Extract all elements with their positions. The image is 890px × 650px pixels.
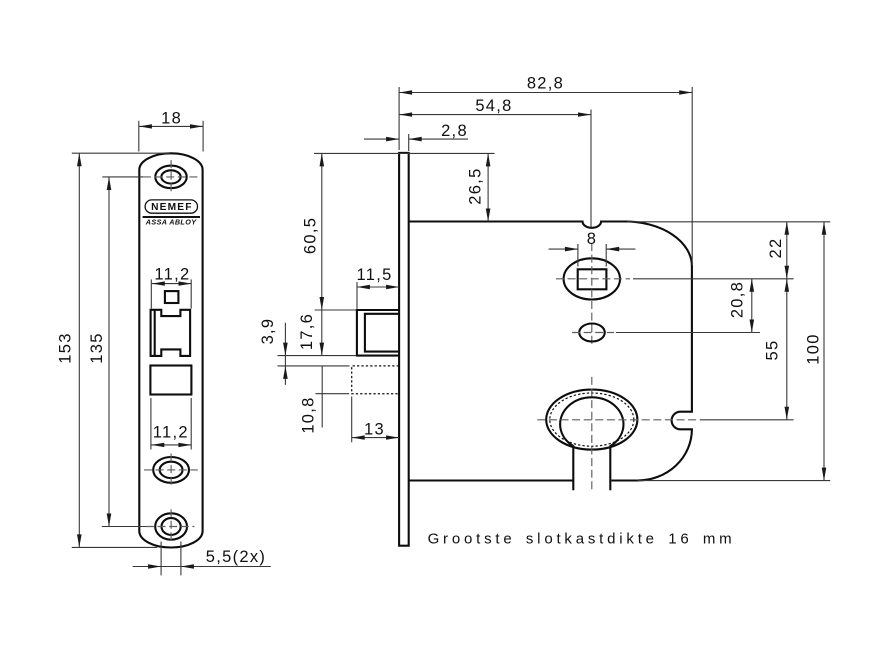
svg-text:60,5: 60,5 xyxy=(301,217,319,254)
dimension 26,5 xyxy=(314,153,495,221)
latch bolt bevel line xyxy=(154,310,156,356)
top screw hole centerline vertical xyxy=(170,160,172,194)
top screw hole outer xyxy=(155,166,186,189)
svg-text:NEMEF: NEMEF xyxy=(151,202,193,213)
faceplate bar side view xyxy=(399,153,409,546)
dimension 20,8 xyxy=(729,279,755,333)
keyhole centerline vertical xyxy=(591,377,593,492)
dimension 135 xyxy=(88,177,146,527)
svg-text:Grootste slotkastdikte 16 mm: Grootste slotkastdikte 16 mm xyxy=(428,531,736,548)
svg-text:153: 153 xyxy=(57,332,75,363)
bottom slot centerline horizontal xyxy=(146,526,194,528)
follower hole ellipse xyxy=(564,258,620,299)
top screw hole centerline horizontal xyxy=(143,176,199,178)
middle slot centerline vertical xyxy=(170,454,172,487)
svg-text:82,8: 82,8 xyxy=(527,74,564,92)
dimension 18 xyxy=(139,110,203,152)
spindle square hole xyxy=(165,291,179,303)
dimension 22 xyxy=(627,222,830,279)
latch bolt side outer xyxy=(357,310,399,356)
svg-text:17,6: 17,6 xyxy=(298,313,316,350)
dimension 10,8 xyxy=(300,367,350,434)
svg-text:2,8: 2,8 xyxy=(441,122,468,140)
dimension 100 xyxy=(638,222,831,481)
svg-text:100: 100 xyxy=(805,333,823,364)
follower centerline horizontal dashed xyxy=(556,278,630,280)
svg-text:26,5: 26,5 xyxy=(467,167,485,204)
keyhole inner profile xyxy=(560,397,623,490)
dimension 13 xyxy=(352,397,399,443)
dimension 11,2 upper xyxy=(151,266,191,309)
dimension 8 xyxy=(549,230,636,267)
dimension 17,6 xyxy=(278,310,357,356)
top screw hole inner xyxy=(161,170,180,183)
dimension 55 xyxy=(764,279,790,420)
dimension 11,2 lower xyxy=(151,398,192,450)
latch bolt side inner xyxy=(365,314,399,352)
svg-text:3,9: 3,9 xyxy=(259,318,277,345)
svg-text:11,2: 11,2 xyxy=(153,424,189,442)
faceplate outline xyxy=(139,153,202,547)
keyhole recess dashed ellipse xyxy=(550,393,634,446)
svg-text:10,8: 10,8 xyxy=(300,396,318,433)
svg-text:20,8: 20,8 xyxy=(729,281,747,318)
deadbolt opening xyxy=(150,366,191,395)
svg-text:13: 13 xyxy=(364,420,385,438)
follower centerline vertical xyxy=(591,243,593,347)
latch bolt front outline xyxy=(151,310,191,356)
small hole centerline extension xyxy=(616,332,760,334)
svg-text:8: 8 xyxy=(587,230,597,248)
svg-text:22: 22 xyxy=(767,238,785,259)
dimension 11,5 xyxy=(357,266,400,309)
svg-text:ASSA ABLOY: ASSA ABLOY xyxy=(145,217,197,226)
NEMEF underline xyxy=(143,216,200,218)
follower centerline extension xyxy=(633,278,794,280)
svg-text:135: 135 xyxy=(88,332,106,363)
dimension 60,5 xyxy=(301,153,324,310)
dimension 3,9 xyxy=(259,318,350,385)
NEMEF logo border xyxy=(145,200,197,213)
keyhole centerline horizontal dashed xyxy=(537,419,700,421)
keyhole centerline extension xyxy=(700,419,794,421)
middle screw slot inner xyxy=(160,462,183,478)
dimension 153 xyxy=(57,153,171,547)
svg-text:11,5: 11,5 xyxy=(357,266,393,284)
case outline xyxy=(409,222,692,481)
deadbolt hidden dashed xyxy=(352,366,399,394)
middle screw slot outer xyxy=(153,457,189,483)
bottom slot centerline vertical xyxy=(170,509,172,543)
follower square xyxy=(578,269,607,289)
bottom screw slot inner xyxy=(162,518,181,535)
svg-text:5,5(2x): 5,5(2x) xyxy=(206,548,266,566)
dimension 5,5(2x) xyxy=(133,542,271,576)
bottom screw slot outer xyxy=(155,513,187,539)
svg-text:54,8: 54,8 xyxy=(475,97,512,115)
middle slot centerline horizontal xyxy=(144,469,198,471)
svg-text:11,2: 11,2 xyxy=(154,266,190,284)
dimension 82,8 xyxy=(399,74,692,265)
svg-text:18: 18 xyxy=(161,110,182,128)
keyhole outer ellipse xyxy=(546,390,637,450)
dimension 2,8 xyxy=(364,122,468,151)
small hole centerline dashed xyxy=(572,332,614,334)
svg-text:55: 55 xyxy=(764,340,782,361)
small hole xyxy=(579,324,605,342)
dimension 54,8 xyxy=(399,97,591,227)
